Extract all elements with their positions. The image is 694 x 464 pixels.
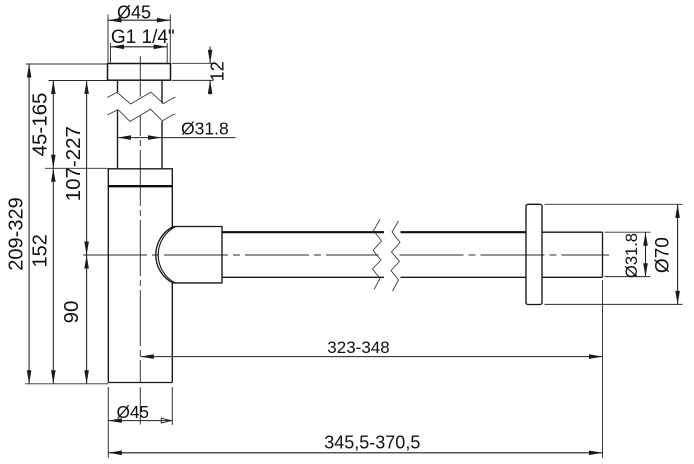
dim d70: dimension line <box>677 204 679 304</box>
horizontal pipe bottom line <box>222 276 526 278</box>
svg-text:323-348: 323-348 <box>327 338 389 357</box>
90 arrows <box>84 255 89 269</box>
dim 12: dimension line with outside arrows <box>209 47 211 95</box>
break squiggle upper pipe 1 <box>107 92 175 104</box>
d45 bottom right open arrow <box>161 418 171 423</box>
svg-text:107-227: 107-227 <box>62 126 85 201</box>
pipe end extension line <box>602 280 604 458</box>
svg-text:345,5-370,5: 345,5-370,5 <box>324 433 420 453</box>
centerline horizontal (pipe axis) <box>83 254 609 256</box>
107-227 arrows <box>84 81 89 95</box>
break squiggle upper pipe 2 <box>107 109 175 121</box>
d45 bottom left arrow <box>108 418 122 423</box>
dim 209-329: dimension line <box>28 64 30 384</box>
svg-text:152: 152 <box>30 234 52 267</box>
svg-text:Ø31.8: Ø31.8 <box>181 119 229 139</box>
svg-text:45-165: 45-165 <box>29 93 52 157</box>
break squiggle horizontal pipe 2 <box>391 221 400 291</box>
dim d45 top: extension lines <box>108 15 170 63</box>
left extension lines (flange bottom / cap top / body bottom) <box>25 81 108 384</box>
svg-text:209-329: 209-329 <box>6 197 28 270</box>
svg-text:Ø45: Ø45 <box>117 2 151 22</box>
trap body walls <box>108 186 172 382</box>
d70 arrows <box>675 204 680 218</box>
dim G1 1/4: dimension line <box>111 46 168 48</box>
dim 345,5-370,5: dimension line <box>108 452 602 454</box>
323-348 arrows <box>140 354 154 359</box>
12 arrows <box>208 50 213 64</box>
dim 90: dimension line <box>86 255 88 384</box>
345,5-370,5 arrows <box>108 451 122 456</box>
dim 323-348: dimension line <box>140 356 602 358</box>
elbow outlet piece <box>156 227 222 284</box>
dim 12: extension lines <box>172 63 214 80</box>
d31.8 upper arrows <box>118 135 132 140</box>
152 arrows <box>51 168 56 182</box>
dim G1 1/4: extension lines <box>111 43 168 63</box>
dim 107-227: dimension line <box>86 81 88 256</box>
horizontal pipe top line (bold) <box>222 231 526 233</box>
vertical tail pipe walls <box>118 81 163 169</box>
45-165 arrows <box>51 81 56 95</box>
dim 45-165: dimension line <box>52 81 54 169</box>
svg-text:90: 90 <box>60 301 83 324</box>
dim d45 bottom: dimension line <box>108 420 172 422</box>
G arrows <box>111 45 125 50</box>
209-329 arrows <box>27 64 32 78</box>
dim d70: extension lines <box>545 204 683 304</box>
d45 top arrows <box>108 18 122 23</box>
top flange <box>108 64 171 81</box>
dim d31.8 upper: dimension line <box>118 137 162 139</box>
trap cap bold joint line <box>108 185 172 187</box>
trap cup cap <box>108 169 172 186</box>
dim 152: dimension line <box>52 168 54 383</box>
centerline vertical (trap axis) <box>139 56 141 425</box>
wall-side tail pipe <box>542 232 603 277</box>
svg-text:Ø31.8: Ø31.8 <box>623 233 641 278</box>
svg-text:12: 12 <box>208 61 228 81</box>
dim d45 bottom: extension lines <box>108 387 172 458</box>
break squiggle horizontal pipe 1 <box>373 220 382 290</box>
svg-text:Ø70: Ø70 <box>653 237 674 273</box>
dim d31.8 right: extension lines <box>605 232 651 276</box>
svg-text:G1 1/4": G1 1/4" <box>111 27 175 48</box>
dim 209-329: top extension line <box>26 63 108 65</box>
wall rosette flange <box>526 204 542 304</box>
dim d31.8 right: dimension line <box>645 232 647 276</box>
dim d45 top: dimension line <box>108 19 170 21</box>
d31.8 right arrows <box>643 232 648 246</box>
